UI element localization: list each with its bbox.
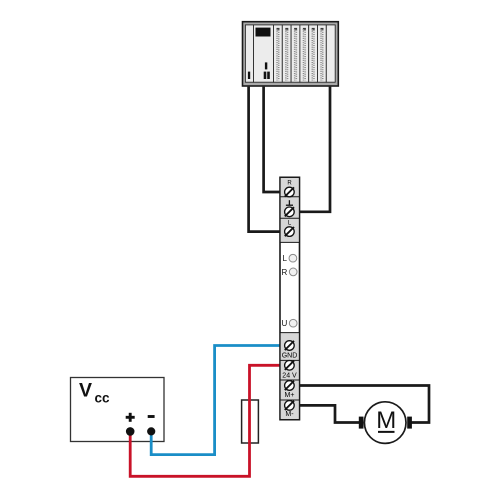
divider 24V/M+: [280, 379, 300, 381]
terminal block bottom gray group: [281, 333, 299, 419]
Vcc box: [71, 378, 165, 442]
svg-text:L: L: [283, 254, 288, 263]
PLC controller U1: [243, 22, 339, 86]
terminal R screw: [285, 187, 295, 197]
node Vcc minus terminal: [147, 427, 155, 435]
PLC I/O module 4: [300, 25, 309, 82]
PLC PS switch: [248, 72, 250, 79]
terminal L screw: [285, 227, 295, 237]
svg-text:M: M: [376, 407, 396, 434]
motor M1: [359, 402, 412, 444]
svg-text:M-: M-: [285, 411, 294, 418]
terminal 24V screw: [285, 361, 295, 371]
node Vcc plus terminal: [126, 427, 135, 436]
divider gnd-bar/L: [280, 217, 300, 219]
PLC power supply module PS: [245, 25, 253, 82]
divider L/white: [280, 241, 300, 243]
PLC I/O module 1: [274, 25, 283, 82]
wire terminal M- to motor: [290, 405, 361, 422]
terminal M- screw: [285, 401, 295, 411]
PLC I/O module 3: [291, 25, 300, 82]
motor right brush: [407, 417, 412, 429]
motor DC underline: [378, 431, 395, 433]
indicator U: [282, 319, 298, 328]
terminal M+ screw: [285, 381, 295, 391]
fuse F1: [242, 400, 259, 443]
motor left brush: [359, 417, 364, 429]
PLC frame: [243, 22, 339, 86]
svg-text:GND: GND: [282, 352, 298, 359]
divider M+/M-: [280, 399, 300, 401]
wire Vcc- to terminal GND (blue): [151, 346, 289, 455]
terminal block top gray group: [281, 178, 299, 242]
indicator L: [283, 254, 297, 263]
terminal block X1: [280, 177, 300, 419]
svg-text:R: R: [282, 268, 288, 277]
svg-text:M+: M+: [285, 392, 295, 399]
indicator R: [282, 268, 298, 277]
divider GND/24V: [280, 359, 300, 361]
plus sign: [126, 413, 135, 422]
divider R/gnd-bar: [280, 196, 300, 198]
PLC CPU display: [256, 28, 271, 37]
wire Vcc+ to terminal 24V (red): [130, 365, 289, 476]
motor body: [364, 402, 406, 444]
PLC I/O module 6: [318, 25, 327, 82]
PLC CPU module: [254, 25, 274, 82]
PLC empty slot: [326, 25, 335, 82]
PLC CPU mode switch: [265, 62, 267, 69]
svg-text:V: V: [79, 380, 92, 402]
svg-text:24 V: 24 V: [282, 372, 297, 379]
svg-text:U: U: [282, 319, 288, 328]
svg-text:R: R: [287, 181, 292, 187]
terminal GND screw: [285, 341, 295, 351]
PLC CPU port 2: [267, 72, 270, 79]
divider white/GND: [280, 332, 300, 334]
PLC I/O module 5: [309, 25, 318, 82]
svg-text:cc: cc: [95, 391, 111, 406]
minus sign: [148, 415, 155, 418]
PLC I/O module 2: [282, 25, 291, 82]
ground symbol: [286, 200, 293, 205]
wire PLC to terminal L: [249, 87, 289, 232]
wire terminal M+ to motor: [290, 386, 429, 423]
wire PLC to terminal R: [264, 87, 289, 192]
PLC CPU port 1: [264, 72, 267, 79]
wire terminal GND-bar to PLC: [290, 87, 330, 212]
power supply Vcc: [71, 378, 165, 442]
terminal gnd-bar screw: [285, 207, 295, 217]
terminal block body: [280, 177, 300, 419]
